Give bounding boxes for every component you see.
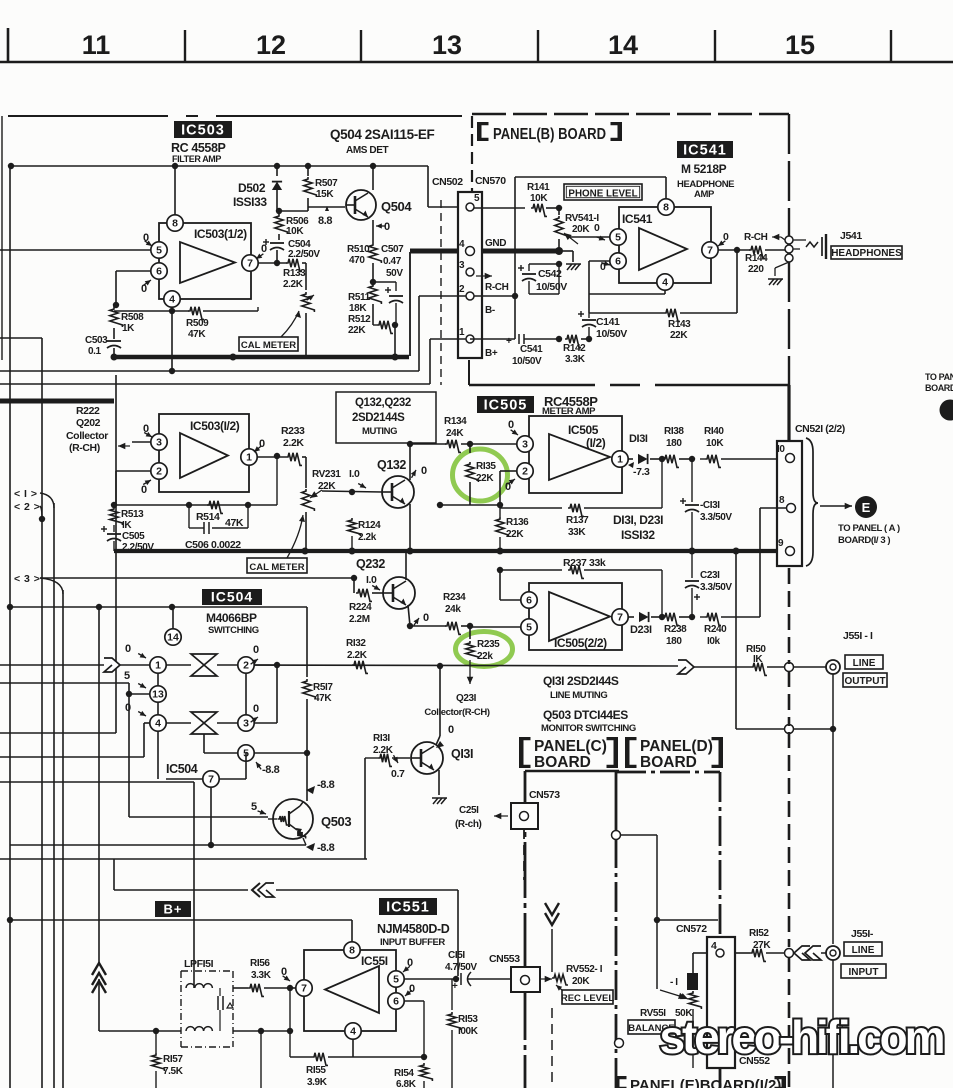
svg-text:0: 0: [125, 643, 131, 655]
svg-text:stereo-hifi.com: stereo-hifi.com: [660, 1011, 945, 1063]
pin 14 of IC504: [165, 607, 181, 645]
svg-text:(R-CH): (R-CH): [69, 442, 100, 454]
signal bus thick y551: [114, 548, 781, 555]
svg-text:2.2K: 2.2K: [283, 279, 304, 290]
svg-text:AMP: AMP: [694, 189, 715, 200]
pin 4 of IC541: [589, 274, 673, 294]
svg-text:MUTING: MUTING: [362, 426, 397, 437]
C251 R-ch note: [455, 805, 508, 830]
IC551 label: [379, 898, 437, 916]
Q131 emitter ground: [432, 770, 447, 804]
svg-text:220: 220: [748, 264, 764, 275]
pin 8 of IC503: [167, 166, 183, 231]
Q504 part name text: [330, 127, 434, 156]
pin 3 of IC504: [238, 703, 259, 731]
connector arrow 2: [14, 501, 42, 519]
svg-text:4: 4: [459, 239, 465, 250]
IC503 label: [174, 121, 232, 139]
crossing circle input line: [785, 949, 794, 958]
svg-text:R514: R514: [196, 511, 220, 523]
CN521 dash line down: [788, 568, 791, 1088]
svg-text:47K: 47K: [225, 517, 244, 529]
wire B- from pin2: [0, 293, 518, 374]
svg-text:9: 9: [778, 538, 784, 549]
svg-text:C503: C503: [85, 335, 108, 346]
svg-text:1: 1: [155, 660, 161, 672]
svg-text:IK: IK: [753, 654, 763, 665]
svg-text:RC 4558P: RC 4558P: [171, 141, 226, 155]
transistor Q232: [356, 557, 415, 609]
to panel note top right: [925, 372, 953, 393]
PANEL(B) BOARD title: [477, 122, 622, 143]
diode D502: [233, 166, 282, 211]
svg-text:1: 1: [246, 452, 252, 464]
svg-text:C23I: C23I: [700, 570, 720, 581]
CN570 pin 4 GND: [459, 238, 506, 256]
Q232 collector wire: [405, 551, 407, 580]
svg-text:10/50V: 10/50V: [512, 356, 542, 367]
svg-text:2.2K: 2.2K: [347, 650, 368, 661]
svg-text:J55I-: J55I-: [851, 928, 874, 940]
svg-text:QI3I: QI3I: [451, 747, 473, 761]
svg-text:LINE MUTING: LINE MUTING: [550, 690, 607, 701]
svg-text:J541: J541: [840, 230, 862, 242]
wire pin5 rail to Q503: [254, 753, 307, 801]
svg-text:R510: R510: [347, 244, 370, 255]
svg-text:AMS DET: AMS DET: [346, 145, 388, 156]
svg-text:RI53: RI53: [458, 1014, 478, 1025]
svg-text:180: 180: [666, 438, 682, 449]
svg-text:FILTER AMP: FILTER AMP: [172, 154, 221, 164]
resistor R152 27K: [735, 928, 795, 961]
wire lpf input: [99, 1028, 181, 1034]
grid ruler line: [0, 61, 953, 64]
svg-text:0: 0: [423, 612, 429, 624]
PANEL(D) BOARD title: [625, 737, 723, 771]
svg-text:50V: 50V: [386, 268, 403, 279]
svg-text:- I: - I: [670, 977, 678, 988]
svg-text:IC504: IC504: [166, 762, 198, 776]
pin 6 of IC503: [116, 263, 167, 305]
white junction on panel border: [612, 831, 719, 999]
connector CN502/CN570 labels: [432, 175, 506, 188]
svg-text:IC505: IC505: [484, 398, 528, 414]
svg-text:RI40: RI40: [704, 426, 724, 437]
PANEL(D) border: [616, 772, 720, 1088]
svg-text:11: 11: [82, 30, 111, 60]
pin 3 of IC505: [508, 419, 533, 452]
wire D502-R507-Q504 base: [276, 207, 345, 214]
svg-text:15: 15: [785, 30, 815, 60]
Q504 collector annotation 0: [376, 221, 390, 233]
pin 1 of IC504: [0, 643, 166, 673]
pin 6 of IC505 lower: [500, 570, 537, 608]
svg-text:INPUT: INPUT: [849, 967, 879, 978]
wire left vertical x10: [7, 166, 13, 1088]
svg-text:IC55I: IC55I: [361, 954, 388, 968]
capacitor C151 4.7/50V: [445, 950, 511, 992]
resistor R506 10K: [275, 211, 309, 240]
grid column numbers 11-15: [82, 30, 815, 60]
jack output to input vertical: [832, 674, 834, 1088]
svg-text:C542: C542: [538, 268, 562, 280]
CN521 brace: [806, 438, 818, 566]
svg-text:CI5I: CI5I: [448, 950, 465, 961]
resistor R240 10k: [689, 613, 760, 647]
IC504 part name: [206, 611, 259, 636]
chevron up arrow B+ feed: [92, 963, 106, 993]
svg-text:3: 3: [156, 437, 162, 449]
pin 2 of IC505: [500, 463, 533, 505]
Q132 base wire: [322, 468, 382, 495]
wire left vertical x63: [62, 590, 64, 1088]
svg-text:12: 12: [256, 30, 286, 60]
connector CN573: [511, 789, 560, 829]
svg-text:20K: 20K: [572, 224, 590, 235]
svg-text:R507: R507: [315, 178, 338, 189]
svg-text:4: 4: [350, 1026, 356, 1038]
resistor R133 2.2K: [283, 259, 306, 290]
capacitor C541 10/50V: [506, 334, 543, 367]
svg-text:< I >: < I >: [14, 488, 38, 500]
potentiometer RV231 22K: [302, 457, 341, 551]
svg-text:2: 2: [459, 284, 465, 295]
Q132 collector wire: [410, 444, 427, 480]
op-amp IC551 input buffer: [304, 950, 396, 1031]
J541 HEADPHONES label: [831, 230, 902, 259]
svg-text:2SD2144S: 2SD2144S: [352, 412, 405, 424]
svg-text:RI57: RI57: [163, 1054, 183, 1065]
wire top rail y166: [8, 163, 462, 207]
resistor R142 3.3K: [563, 343, 586, 365]
wire B+ from pin1: [0, 339, 466, 384]
svg-text:Q202: Q202: [76, 417, 101, 429]
svg-text:LINE: LINE: [852, 945, 875, 956]
svg-text:2: 2: [243, 660, 249, 672]
svg-text:R133: R133: [283, 268, 306, 279]
resistor R512 22K: [348, 314, 398, 336]
svg-text:NJM4580D-D: NJM4580D-D: [377, 922, 450, 936]
PANEL(C) BOARD title: [519, 737, 618, 771]
svg-text:< 3 >: < 3 >: [14, 573, 40, 585]
CN570 pin 5: [466, 193, 480, 211]
wire rail y890 with chevron: [114, 859, 458, 976]
connector CN552 label: [739, 1055, 770, 1067]
svg-text:R508: R508: [121, 312, 144, 323]
resistor R124 2.2k: [348, 518, 381, 551]
svg-text:CN502: CN502: [432, 176, 463, 188]
CN521 pin 10: [777, 444, 795, 463]
resistor R238 180: [659, 613, 692, 647]
connector arrow 3: [14, 573, 63, 594]
PANEL(B) board border top: [472, 113, 789, 115]
svg-text:8: 8: [663, 202, 669, 214]
resistor R517 47K: [303, 607, 334, 756]
J551 LINE INPUT labels: [841, 928, 886, 978]
svg-text:3.3K: 3.3K: [565, 354, 586, 365]
potentiometer for CAL METER upper: [302, 263, 315, 356]
svg-text:0: 0: [253, 644, 259, 656]
svg-text:PANEL(B) BOARD: PANEL(B) BOARD: [493, 126, 606, 143]
svg-text:0: 0: [421, 465, 427, 477]
diode D231: [630, 612, 662, 636]
svg-text:R240: R240: [704, 624, 727, 635]
svg-text:7: 7: [208, 774, 214, 786]
svg-text:4: 4: [662, 277, 668, 289]
svg-text:3.3/50V: 3.3/50V: [700, 582, 732, 593]
resistor R131 2.2K: [373, 733, 410, 780]
CN521 pin8 wire: [760, 508, 786, 617]
potentiometer RV552-1 20K REC LEVEL: [540, 964, 614, 1004]
pin 2 of IC504: [238, 644, 259, 673]
wire Q504 to R510: [372, 166, 374, 243]
pin 4 of IC551: [345, 1023, 361, 1057]
capacitor C542 10/50V: [518, 261, 567, 294]
svg-text:CAL METER: CAL METER: [249, 562, 304, 573]
svg-text:R137: R137: [566, 515, 589, 526]
capacitor C141 10/50V: [578, 311, 627, 340]
svg-text:CN52I (2/2): CN52I (2/2): [795, 423, 845, 435]
svg-text:B+: B+: [485, 348, 498, 359]
svg-text:C507: C507: [381, 244, 404, 255]
D131 D231 ISS132 note: [613, 513, 663, 542]
PANEL(C) border: [525, 771, 619, 1088]
IC541 label: [677, 141, 733, 159]
terminal E to panel A: [855, 496, 877, 518]
svg-text:ISSI32: ISSI32: [621, 528, 655, 542]
svg-text:IC505: IC505: [568, 423, 599, 437]
svg-text:DI3I: DI3I: [629, 433, 648, 445]
svg-text:RI35: RI35: [476, 461, 496, 472]
capacitor C503 0.1: [85, 335, 121, 357]
ground bus thick y357: [111, 252, 411, 361]
wire left vertical x99: [96, 604, 102, 1031]
arrow to Q231 collector: [424, 660, 489, 718]
resistor R157 7.5K: [152, 1031, 184, 1088]
resistor R132 2.2K: [346, 638, 368, 673]
svg-text:RI52: RI52: [749, 928, 769, 939]
junction circle on panel border: [615, 1039, 624, 1048]
Q232 emitter wire: [408, 605, 429, 626]
svg-text:I0: I0: [777, 444, 785, 455]
CN570 pin 2 B-: [459, 284, 495, 316]
resistor R507 15K: [304, 166, 338, 211]
svg-text:(I/2): (I/2): [586, 436, 606, 450]
svg-text:SWITCHING: SWITCHING: [208, 625, 259, 636]
svg-text:IC503(I/2): IC503(I/2): [190, 419, 240, 433]
svg-text:D502: D502: [238, 181, 266, 195]
pin 7 of IC503: [242, 255, 287, 271]
resistor R153 100K: [448, 979, 479, 1088]
CAL METER label lower: [247, 515, 307, 573]
CN521 vertical bus above: [787, 385, 790, 441]
IC505 label: [477, 396, 534, 414]
diode D131: [629, 433, 662, 464]
stereo-hifi.com watermark: [660, 1011, 945, 1063]
svg-text:6: 6: [156, 266, 162, 278]
svg-text:B+: B+: [164, 902, 183, 917]
to panel A note: [838, 523, 900, 546]
svg-text:B-: B-: [485, 305, 495, 316]
svg-text:18K: 18K: [349, 303, 367, 314]
svg-text:D23I: D23I: [630, 624, 652, 636]
wire phone level top rail: [515, 177, 666, 339]
IC541 part name: [677, 162, 734, 200]
svg-text:47K: 47K: [314, 693, 332, 704]
svg-text:1K: 1K: [122, 323, 135, 334]
pin 4 of IC503: [164, 291, 180, 371]
svg-text:7: 7: [707, 245, 713, 257]
svg-text:R134: R134: [444, 416, 467, 427]
svg-text:24k: 24k: [445, 604, 461, 615]
resistor R150 1K: [694, 644, 827, 675]
svg-text:Q503: Q503: [321, 814, 351, 829]
svg-text:-8.8: -8.8: [317, 779, 335, 791]
svg-text:R513: R513: [121, 509, 144, 520]
resistor R155 3.9K: [290, 988, 424, 1088]
svg-text:BOARD: BOARD: [640, 754, 697, 771]
svg-text:47K: 47K: [188, 329, 206, 340]
pin 7 of IC541: [702, 231, 750, 258]
svg-text:0: 0: [448, 724, 454, 736]
svg-text:IC504: IC504: [211, 589, 253, 605]
pin 5 of IC503: [0, 242, 167, 258]
connector CN553: [489, 953, 540, 992]
svg-text:3.9K: 3.9K: [307, 1077, 328, 1088]
svg-text:8.8: 8.8: [318, 215, 332, 227]
transistor Q504: [346, 190, 412, 220]
capacitor C131 3.3/50V: [680, 459, 732, 551]
connector arrow 1: [14, 488, 54, 508]
svg-text:R509: R509: [186, 318, 209, 329]
svg-text:4: 4: [711, 940, 717, 952]
wire R-CH to jack: [744, 232, 785, 243]
Q503 emitter to -8.8 rail: [303, 838, 335, 854]
resistor R137 33K feedback: [500, 459, 662, 538]
svg-text:0: 0: [253, 703, 259, 715]
wire Q131 base down to mute rail: [365, 758, 378, 859]
svg-text:4: 4: [155, 718, 161, 730]
svg-text:I.0: I.0: [349, 468, 360, 480]
wire line-out y666: [246, 662, 678, 669]
pin 1 of IC503 lower: [241, 438, 286, 465]
svg-text:RV552- I: RV552- I: [566, 964, 603, 975]
svg-text:Q503 DTCI44ES: Q503 DTCI44ES: [543, 708, 628, 722]
wire pin13 to Q503 base: [129, 694, 268, 817]
pin 4 of IC504: [125, 702, 166, 731]
svg-text:1: 1: [459, 327, 465, 338]
PHONE LEVEL label: [564, 184, 642, 200]
CN570 pin 1 B+: [459, 327, 498, 359]
svg-text:CN573: CN573: [529, 789, 560, 801]
svg-text:E: E: [862, 500, 871, 515]
highlight circle R235: [456, 632, 513, 667]
vertical from output node: [736, 725, 836, 734]
svg-text:J55I - I: J55I - I: [843, 630, 873, 642]
resistor R234 24k: [443, 592, 473, 634]
svg-text:10K: 10K: [286, 226, 304, 237]
svg-text:IC503: IC503: [181, 123, 225, 139]
svg-text:(R-ch): (R-ch): [455, 819, 482, 830]
svg-text:DI3I, D23I: DI3I, D23I: [613, 513, 663, 527]
svg-text:10K: 10K: [530, 193, 548, 204]
svg-text:M4066BP: M4066BP: [206, 611, 257, 625]
CN521 pin 9: [778, 538, 795, 556]
resistor R509 47K: [114, 307, 258, 340]
R222 bus thick stub: [0, 399, 114, 404]
transistor Q503 DTC: [268, 799, 351, 839]
pin 3 of IC503 lower: [132, 423, 167, 450]
IC504 label: [202, 589, 262, 606]
svg-text:14: 14: [608, 30, 638, 60]
svg-text:PANEL(E)BOARD(I/2): PANEL(E)BOARD(I/2): [630, 1077, 781, 1088]
pin 8 of IC551: [344, 942, 360, 958]
resistor R508 1K: [110, 302, 144, 339]
potentiometer RV541-1 20K: [555, 208, 600, 249]
wire -8.8 rail y845: [10, 842, 306, 848]
svg-text:4: 4: [169, 294, 175, 306]
analog switch 1: [166, 654, 238, 676]
PANEL(E) BOARD title: [615, 1076, 786, 1088]
wire left vertical x54: [53, 503, 55, 1088]
svg-text:14: 14: [167, 632, 179, 644]
svg-text:3.3K: 3.3K: [251, 970, 272, 981]
CAL METER label upper: [239, 311, 301, 351]
svg-text:GND: GND: [485, 238, 506, 249]
svg-text:I00K: I00K: [458, 1026, 479, 1037]
svg-text:2.2/50V: 2.2/50V: [288, 249, 320, 260]
svg-text:RI54: RI54: [394, 1068, 414, 1079]
pin 5 of IC504: [238, 745, 280, 776]
feedback loop R514 C506: [111, 453, 280, 551]
svg-text:HEADPHONES: HEADPHONES: [831, 248, 902, 259]
monitor switching note: [541, 708, 636, 734]
PANEL(B) board border bottom: [469, 360, 789, 385]
svg-text:470: 470: [349, 255, 365, 266]
svg-text:7.5K: 7.5K: [163, 1066, 184, 1077]
svg-text:0: 0: [141, 484, 147, 496]
svg-text:6: 6: [393, 996, 399, 1008]
svg-text:5: 5: [526, 622, 532, 634]
analog switch 2: [166, 712, 238, 734]
op-amp IC541: [619, 207, 711, 283]
svg-text:R141: R141: [527, 182, 550, 193]
resistor R235 22k: [466, 626, 500, 662]
svg-text:2.2K: 2.2K: [283, 437, 304, 449]
resistor R134 24K: [444, 416, 516, 452]
svg-text:24K: 24K: [446, 428, 464, 439]
J551-1 LINE OUTPUT labels: [843, 630, 887, 687]
resistor R233 2.2K: [281, 425, 306, 465]
pin 5 of IC551: [388, 957, 456, 987]
wire RV541 wiper to pin5: [567, 222, 610, 240]
svg-text:0: 0: [384, 221, 390, 233]
svg-text:20K: 20K: [572, 976, 590, 987]
IC503 part name RC 4558P FILTER AMP: [171, 141, 226, 164]
connector CN572: [676, 923, 735, 1068]
zero-volt annotations IC503 upper: [141, 232, 267, 295]
svg-text:IC541: IC541: [683, 143, 727, 159]
svg-text:0.7: 0.7: [391, 768, 405, 780]
svg-text:R511: R511: [348, 292, 371, 303]
connector CN521 (2/2): [777, 423, 845, 566]
svg-text:8: 8: [172, 218, 178, 230]
resistor R135 22K: [466, 444, 497, 505]
svg-text:0: 0: [594, 222, 600, 234]
svg-text:0: 0: [259, 438, 265, 450]
svg-text:15K: 15K: [316, 189, 334, 200]
svg-text:IK: IK: [122, 520, 132, 531]
